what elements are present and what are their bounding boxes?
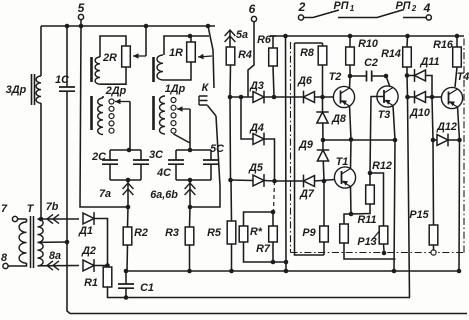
svg-text:R14: R14 <box>381 48 401 60</box>
resistor Rstar label <box>250 226 263 238</box>
node terminal 2 <box>298 0 306 20</box>
resistor R14 label <box>381 48 401 60</box>
wire T sec bottom to D2 <box>38 250 80 270</box>
svg-text:R5: R5 <box>207 227 222 239</box>
svg-text:R10: R10 <box>358 38 378 50</box>
svg-text:R11: R11 <box>357 214 376 226</box>
wire D9 to D7 node <box>322 161 325 181</box>
resistor R15 label <box>409 209 429 221</box>
switch K blade <box>208 106 217 117</box>
svg-text:РП: РП <box>396 0 411 12</box>
resistor R4 label <box>238 49 252 61</box>
node 7a arrows <box>99 180 133 209</box>
capacitor 5C <box>203 150 219 180</box>
resistor R14 <box>403 34 412 76</box>
resistor R4 <box>226 47 235 99</box>
svg-text:1R: 1R <box>169 47 183 59</box>
resistor Rstar <box>239 226 248 242</box>
switch K contacts <box>199 96 208 105</box>
diode D8 <box>316 97 346 125</box>
diode D1 <box>78 212 107 265</box>
wire cap loop left <box>110 148 141 183</box>
capacitor 4C label <box>156 167 171 179</box>
transistor T3 label <box>378 109 391 121</box>
svg-text:Д6: Д6 <box>297 75 313 87</box>
svg-text:Д5: Д5 <box>248 162 264 174</box>
resistor R1 <box>103 266 410 298</box>
capacitor 2C label <box>91 151 106 163</box>
resistor R13 <box>370 173 388 255</box>
inductor 1Dr primary coil <box>157 55 163 80</box>
wire R8 left leg to R9 bottom <box>295 43 325 255</box>
resistor R2 label <box>134 227 148 239</box>
diode D5 <box>231 162 264 187</box>
node 5a arrow <box>225 29 248 47</box>
diode D4 branch wire <box>239 95 253 139</box>
inductor 2Dr label <box>105 85 127 97</box>
resistor 1R loop <box>163 36 209 80</box>
capacitor 2C <box>102 150 118 180</box>
svg-text:С2: С2 <box>364 57 378 69</box>
resistor 1R <box>187 42 196 62</box>
wiper arrow 1Dr tap <box>174 106 191 150</box>
transformer T label <box>27 203 35 215</box>
capacitor 5C label <box>210 143 224 155</box>
svg-text:Р9: Р9 <box>302 227 315 239</box>
svg-text:Р15: Р15 <box>409 209 429 221</box>
svg-text:R4: R4 <box>238 49 252 61</box>
switch K wire from bus <box>208 26 214 88</box>
svg-text:7а: 7а <box>99 188 111 200</box>
svg-text:Т1: Т1 <box>336 156 349 168</box>
wire supply drop x286 <box>283 34 288 274</box>
wire terminal5 drop to 7a node <box>80 26 126 207</box>
wire T3 collector to C2 node <box>384 74 390 87</box>
wire Rstar-R7 bottom <box>244 242 287 264</box>
capacitor 4C <box>168 150 184 180</box>
diode D2 <box>81 245 110 272</box>
wire T sec top to D1 <box>38 201 80 224</box>
svg-text:Д1: Д1 <box>78 225 93 237</box>
inductor 2Dr primary coil <box>95 57 100 84</box>
inductor 3Dr core <box>32 74 35 105</box>
wire R4 node down to D5 and R5 <box>228 97 233 182</box>
wire T1 collector <box>350 140 353 170</box>
diode D3 <box>249 80 264 103</box>
wire T1 emitter <box>349 186 354 216</box>
svg-text:4С: 4С <box>156 167 171 179</box>
transistor T1 <box>334 167 355 188</box>
svg-text:Д8: Д8 <box>331 113 346 125</box>
relay contact RP1 <box>304 0 377 18</box>
transistor T2 <box>333 86 354 107</box>
resistor R6 label <box>257 34 272 46</box>
inductor 3Dr coil <box>36 26 41 219</box>
wire terminal 6 down <box>248 22 254 97</box>
svg-text:Д3: Д3 <box>249 80 264 92</box>
svg-text:R6: R6 <box>257 34 272 46</box>
resistor R3 label <box>165 227 179 239</box>
svg-text:2С: 2С <box>91 151 106 163</box>
svg-text:Д11: Д11 <box>419 56 439 68</box>
wire D8 to D9 <box>322 123 324 150</box>
svg-text:1: 1 <box>350 4 355 13</box>
svg-text:2: 2 <box>298 0 306 14</box>
svg-text:R1: R1 <box>84 277 98 289</box>
svg-text:РП: РП <box>334 0 349 12</box>
svg-text:2: 2 <box>411 4 417 13</box>
resistor R10 label <box>358 38 378 50</box>
svg-text:2Др: 2Др <box>105 85 127 97</box>
inductor 1Dr tap winding <box>159 96 176 134</box>
diode D10 <box>408 91 442 104</box>
svg-text:R3: R3 <box>165 227 179 239</box>
capacitor 3C <box>133 150 149 180</box>
node terminal 5 <box>78 1 85 26</box>
transistor T2 label <box>329 71 342 83</box>
resistor R1 label <box>84 277 98 289</box>
svg-text:Д7: Д7 <box>299 188 315 200</box>
resistor R11 <box>340 214 396 259</box>
wire bottom bus y313 <box>67 242 467 314</box>
wire K to 6a node <box>190 116 220 207</box>
relay contact RP2 <box>377 0 426 18</box>
wire T3 emitter <box>392 106 397 274</box>
wire D5 node dashed drop <box>274 181 275 212</box>
svg-text:5С: 5С <box>210 143 224 155</box>
svg-text:3Др: 3Др <box>6 84 27 96</box>
svg-text:6: 6 <box>249 2 256 16</box>
diode D7 <box>275 175 315 200</box>
node D5 cathode <box>264 179 277 184</box>
wire D7 to T1 base <box>315 179 336 184</box>
resistor 1R label <box>169 47 183 59</box>
resistor R2 <box>123 207 132 271</box>
inductor 2Dr core <box>90 57 93 130</box>
svg-text:R16: R16 <box>433 39 454 51</box>
resistor R8 <box>295 43 327 97</box>
svg-text:R12: R12 <box>372 160 392 172</box>
transformer T primary <box>8 219 26 266</box>
resistor R5 <box>227 180 236 273</box>
svg-text:7: 7 <box>1 203 8 215</box>
capacitor C1 label <box>140 282 154 294</box>
switch K label <box>202 82 210 94</box>
wire D4 to D5 node <box>264 139 275 181</box>
transistor T3 <box>377 86 398 107</box>
transformer T secondary <box>38 219 44 266</box>
wire top bus y36 <box>270 35 464 37</box>
resistor R8 label <box>300 47 314 59</box>
svg-text:Д2: Д2 <box>81 245 96 257</box>
svg-text:7b: 7b <box>46 201 59 213</box>
resistor R11 label <box>357 214 376 226</box>
wire T3 base <box>370 97 384 174</box>
svg-text:5: 5 <box>78 1 85 15</box>
resistor R3 <box>185 207 194 273</box>
svg-text:5а: 5а <box>236 29 248 41</box>
wire R14 node down <box>405 73 410 297</box>
resistor R7 <box>269 226 278 242</box>
node D3 cathode <box>264 95 303 100</box>
diode D10 label <box>409 107 430 119</box>
resistor R13 label <box>357 236 376 248</box>
svg-text:R7: R7 <box>256 243 271 255</box>
inductor 1Dr core <box>152 57 155 130</box>
capacitor C2 label <box>364 57 378 69</box>
capacitor C2 <box>350 71 386 82</box>
resistor R16 label <box>433 39 454 51</box>
svg-text:Т4: Т4 <box>457 71 469 83</box>
wire bus y271 <box>124 270 459 272</box>
wire T sec mid tap <box>38 240 70 245</box>
resistor R15 <box>429 140 438 255</box>
diode D12 label <box>436 121 457 133</box>
capacitor 1C <box>59 26 75 242</box>
svg-text:R8: R8 <box>300 47 314 59</box>
wiper arrow 2Dr tap <box>115 99 130 150</box>
diode D4 <box>249 122 264 145</box>
node D8-D9 mid <box>321 138 326 143</box>
diode D6 <box>297 75 314 103</box>
transformer T core <box>31 216 34 268</box>
svg-text:1Др: 1Др <box>165 83 186 95</box>
wiper arrow 2R <box>133 26 146 59</box>
resistor R5 label <box>207 227 222 239</box>
wire D3 row <box>230 96 253 98</box>
svg-text:8а: 8а <box>49 250 61 262</box>
svg-text:3С: 3С <box>149 149 163 161</box>
svg-text:4: 4 <box>423 1 431 15</box>
transistor T1 label <box>336 156 349 168</box>
svg-text:8: 8 <box>1 252 7 264</box>
svg-text:R*: R* <box>250 226 263 238</box>
node terminal 6 <box>249 2 257 22</box>
svg-text:6а,6b: 6а,6b <box>150 189 178 201</box>
wire D6 to T2 base <box>315 95 335 100</box>
diode D11 label <box>419 56 439 68</box>
inductor 1Dr label <box>165 83 186 95</box>
wire top bus y26 <box>41 25 215 27</box>
wire T4 emitter <box>457 107 462 274</box>
resistor R16 <box>453 34 462 87</box>
enclosure boundary <box>291 36 465 253</box>
diode D12 <box>431 97 462 146</box>
transistor T4 label <box>457 71 469 83</box>
wire T2 emitter <box>350 106 352 140</box>
svg-text:Т2: Т2 <box>329 71 342 83</box>
capacitor 3C label <box>149 149 163 161</box>
wiper arrow 1R <box>198 54 212 60</box>
capacitor 1C label <box>55 74 69 86</box>
svg-text:Т3: Т3 <box>378 109 391 121</box>
resistor R9 label <box>302 227 315 239</box>
wire bus y297 corner <box>409 297 412 299</box>
svg-text:С1: С1 <box>140 282 154 294</box>
svg-text:Д9: Д9 <box>298 139 313 151</box>
wire Rstar-R7 top bracket <box>244 210 276 226</box>
resistor R9 <box>320 181 329 255</box>
node 6a6b arrows <box>150 180 195 209</box>
resistor R12 <box>351 171 374 214</box>
node terminal 4 <box>423 1 432 20</box>
resistor 2R loop <box>100 36 126 84</box>
wire T2 collector <box>349 76 352 89</box>
resistor R12 label <box>372 160 392 172</box>
node terminal 8 <box>1 252 8 269</box>
wire emitter tie y140 <box>323 137 397 142</box>
svg-text:Д12: Д12 <box>436 121 457 133</box>
node terminal 7 <box>1 203 18 222</box>
capacitor C1 <box>118 269 134 300</box>
wire cap loop right <box>176 148 211 183</box>
resistor R10 <box>346 34 355 79</box>
resistor 2R label <box>102 52 117 64</box>
svg-text:R2: R2 <box>134 227 148 239</box>
svg-text:2R: 2R <box>102 52 117 64</box>
node 1R top <box>188 34 193 39</box>
diode D11 <box>407 69 432 97</box>
diode D9 <box>298 139 329 161</box>
inductor 2Dr tap winding <box>98 96 114 135</box>
inductor 3Dr label <box>6 84 27 96</box>
svg-text:Д4: Д4 <box>249 122 264 134</box>
resistor R7 label <box>256 243 271 255</box>
svg-text:Д10: Д10 <box>409 107 430 119</box>
transistor T4 <box>441 87 462 108</box>
resistor 2R <box>122 46 131 67</box>
node junction dots on bus y26 <box>65 24 211 29</box>
resistor R6 <box>269 36 278 97</box>
